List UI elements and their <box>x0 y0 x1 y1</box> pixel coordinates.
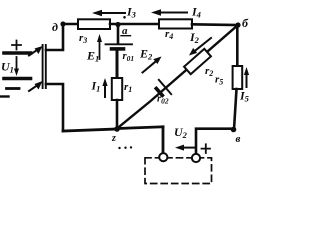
current arrow I2 <box>195 38 212 51</box>
svg-text:в: в <box>236 133 241 145</box>
wire left terminal riser <box>162 127 165 153</box>
terminal left <box>159 153 167 161</box>
wire top bus d to r3 <box>63 23 79 26</box>
plug arrow bottom <box>29 85 39 92</box>
resistor R5 <box>233 66 243 89</box>
voltage arrow U1 <box>16 57 18 69</box>
node v <box>231 127 237 133</box>
dotted marks <box>118 146 132 149</box>
wire r1 to node g <box>116 100 119 129</box>
source U1 plus terminal plate <box>4 51 31 55</box>
wire bottom bus to node g <box>63 129 117 131</box>
resistor R3 <box>78 19 110 29</box>
plus sign U1 <box>12 41 21 50</box>
node d <box>60 21 65 26</box>
emf arrow E1 <box>99 41 101 59</box>
terminal right <box>192 154 200 162</box>
voltage arrow U2 <box>181 147 194 149</box>
battery E1 long plate <box>106 43 133 45</box>
socket contact double line <box>43 45 46 88</box>
wire bottom bus node g to left terminal riser <box>117 127 163 129</box>
edge tick mark <box>0 95 9 97</box>
svg-text:z: z <box>111 133 116 144</box>
wire left branch from node d down <box>46 24 63 50</box>
svg-text:б: б <box>242 16 249 30</box>
emf arrow E2 <box>143 61 157 72</box>
wire battery to r1 <box>116 51 119 78</box>
dashed box external network <box>145 158 212 184</box>
current arrow I4 <box>158 12 187 14</box>
diagonal wire node g to node b <box>117 25 238 129</box>
node g <box>114 126 120 132</box>
wire left branch lower hook to bottom bus <box>46 84 63 131</box>
node b <box>235 22 240 27</box>
plug arrow top <box>29 49 39 56</box>
speck <box>123 16 126 19</box>
wire right terminal riser and bus to node v <box>196 129 234 154</box>
svg-text:д: д <box>52 20 58 34</box>
plus sign U2 <box>202 144 211 153</box>
wire node a down to battery E1 <box>117 25 120 44</box>
resistor R4 <box>159 19 192 28</box>
resistor R2 rotated <box>184 49 211 74</box>
battery E1 short plate <box>112 47 124 51</box>
resistor R1 <box>112 78 122 100</box>
current arrow I5 <box>246 74 248 87</box>
battery E2 short plate <box>156 89 162 96</box>
wire top bus r4 to node b <box>192 23 238 26</box>
wire r5 to node v <box>234 89 237 130</box>
wire top bus r3 to r4 through node a <box>110 23 159 26</box>
wire node b down to r5 <box>236 26 239 67</box>
source U1 minus terminal plate <box>4 77 31 81</box>
minus sign U1 <box>7 87 20 90</box>
node a <box>115 22 120 27</box>
battery E2 long plate <box>159 80 171 94</box>
current arrow I1 <box>104 85 106 97</box>
current arrow I3 <box>99 12 125 14</box>
